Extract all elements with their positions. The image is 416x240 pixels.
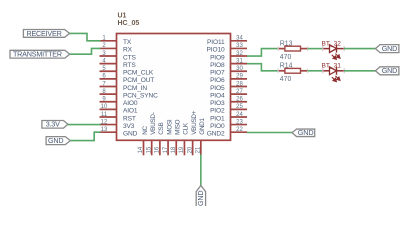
svg-text:PIO0: PIO0 [210,123,225,130]
svg-text:GND: GND [123,131,138,138]
wire RECEIVER to pin 1 [70,33,101,40]
supply label 3.3V [42,120,68,129]
svg-text:PIO7: PIO7 [210,70,225,77]
svg-text:21: 21 [196,146,202,153]
svg-text:GND: GND [196,191,205,206]
pin 33 (PIO10) of U1 [207,43,247,54]
svg-text:BT_32: BT_32 [322,40,342,47]
pin 24 (PIO1) of U1 [210,112,247,123]
wire R13 to LED BT_32 [308,48,323,50]
wire pin 31 to R14 [247,64,279,71]
wire 3.3V to pin 12 [68,124,101,126]
wire GND to pin 13 [70,132,100,140]
pin 22 (GND2) of U1 [207,127,247,138]
pin 14 (NC) of U1 [138,125,149,155]
pin 18 (MISO) of U1 [171,119,182,155]
svg-text:13: 13 [101,127,108,133]
svg-text:20: 20 [187,146,193,153]
svg-text:GND: GND [382,44,397,53]
svg-text:CLK: CLK [183,122,190,135]
pin 23 (PIO0) of U1 [210,119,247,129]
svg-text:HC_05: HC_05 [118,20,140,27]
svg-text:3.3V: 3.3V [46,120,60,129]
pin 31 (PIO8) of U1 [210,58,247,68]
pin 8 (PCN_SYNC) of U1 [100,89,159,100]
pin 29 (PIO6) of U1 [210,74,247,85]
svg-text:GND2: GND2 [207,131,225,138]
svg-text:NC: NC [142,125,149,134]
svg-text:17: 17 [163,146,169,153]
svg-text:24: 24 [236,112,243,118]
svg-text:VBUSD-: VBUSD- [150,112,157,135]
svg-text:MOSI: MOSI [166,119,173,135]
svg-text:12: 12 [101,119,108,125]
svg-text:PIO1: PIO1 [210,115,225,122]
svg-text:CTS: CTS [123,54,136,61]
pin 1 (TX) of U1 [100,36,132,47]
svg-text:19: 19 [179,146,185,153]
pin 11 (RST) of U1 [100,112,136,123]
svg-text:33: 33 [236,43,243,49]
svg-text:470: 470 [280,76,292,83]
svg-text:14: 14 [138,146,144,153]
ground label GND (right row 1) [375,44,399,53]
LED BT_31 [322,63,345,82]
pin 7 (PCM_IN) of U1 [100,81,148,92]
pin 25 (PIO2) of U1 [210,104,247,115]
pin 27 (PIO4) of U1 [210,89,247,100]
IC U1 HC_05 body [117,34,231,141]
ground label GND (right row 2) [375,66,399,75]
pin 17 (MOSI) of U1 [163,119,174,155]
svg-text:PIO6: PIO6 [210,77,225,84]
svg-text:18: 18 [171,146,177,153]
pin 30 (PIO7) of U1 [210,66,247,77]
svg-text:VBUSD+: VBUSD+ [191,110,198,135]
svg-text:RX: RX [123,47,133,54]
svg-text:PIO9: PIO9 [210,54,225,61]
pin 5 (PCM_CLK) of U1 [100,66,154,77]
svg-text:PCM_OUT: PCM_OUT [123,77,154,84]
svg-text:RTS: RTS [123,62,136,69]
svg-text:GND: GND [298,128,314,137]
svg-text:PCM_IN: PCM_IN [123,85,147,92]
svg-text:R13: R13 [280,40,293,47]
svg-text:PCN_SYNC: PCN_SYNC [123,92,158,99]
wire pin 22 to GND [247,132,293,134]
pin 21 (GND1) of U1 [196,117,207,155]
pin 9 (AIO0) of U1 [100,97,138,108]
resistor R14 [278,63,308,74]
wire pin 21 to GND (bottom) [200,154,202,185]
net label RECEIVER [23,29,69,38]
svg-text:U1: U1 [118,12,127,19]
svg-text:23: 23 [236,119,243,125]
svg-text:GND: GND [48,136,63,145]
svg-text:PIO11: PIO11 [207,39,225,46]
pin 6 (PCM_OUT) of U1 [100,74,155,85]
wire pin 32 to R13 [247,49,279,56]
svg-text:GND: GND [382,66,397,75]
pin 13 (GND) of U1 [100,127,138,138]
svg-text:32: 32 [236,51,243,57]
svg-text:30: 30 [236,66,243,72]
svg-text:15: 15 [146,146,152,153]
pin 34 (PIO11) of U1 [207,36,247,47]
pin 3 (CTS) of U1 [100,51,137,62]
wire BT_31 to GND [344,70,377,72]
svg-text:25: 25 [236,104,243,110]
svg-text:34: 34 [236,36,243,42]
svg-text:11: 11 [101,112,108,118]
ground label GND (pin 22) [292,128,315,137]
svg-text:PIO5: PIO5 [210,85,225,92]
LED BT_32 [322,40,345,59]
wire TRANSMITTER to pin 2 [70,48,101,54]
svg-text:27: 27 [236,89,243,95]
pin 12 (3V3) of U1 [100,119,135,129]
svg-text:PIO2: PIO2 [210,108,225,115]
svg-text:PIO10: PIO10 [207,47,225,54]
svg-text:RECEIVER: RECEIVER [26,29,61,38]
svg-text:10: 10 [101,104,108,110]
net label TRANSMITTER [10,50,70,59]
svg-text:AIO0: AIO0 [123,100,138,107]
svg-text:22: 22 [236,127,243,133]
pin 20 (VBUSD+) of U1 [187,110,198,155]
svg-text:470: 470 [280,54,292,61]
svg-text:R14: R14 [280,63,293,70]
pin 2 (RX) of U1 [100,43,133,54]
svg-text:16: 16 [155,146,161,153]
svg-text:29: 29 [236,74,243,80]
pin 15 (VBUSD-) of U1 [146,112,157,155]
svg-text:PIO4: PIO4 [210,92,225,99]
svg-text:28: 28 [236,81,243,87]
svg-text:BT_31: BT_31 [322,63,342,70]
svg-text:RST: RST [123,115,136,122]
ground label GND (left) [46,136,70,145]
svg-text:PCM_CLK: PCM_CLK [123,70,154,77]
svg-text:31: 31 [236,58,243,64]
pin 10 (AIO1) of U1 [100,104,138,115]
pin 4 (RTS) of U1 [100,58,137,68]
svg-text:TRANSMITTER: TRANSMITTER [13,50,62,59]
pin 26 (PIO3) of U1 [210,97,247,108]
svg-text:26: 26 [236,97,243,103]
svg-text:CSB: CSB [158,123,165,135]
ground label GND (bottom, rotated) [196,186,205,209]
pin 16 (CSB) of U1 [155,123,166,156]
svg-text:GND1: GND1 [199,117,206,134]
resistor R13 [278,40,308,51]
svg-text:3V3: 3V3 [123,123,135,130]
pin 19 (CLK) of U1 [179,122,190,155]
svg-text:MISO: MISO [175,119,182,134]
pin 32 (PIO9) of U1 [210,51,247,62]
svg-text:PIO8: PIO8 [210,62,225,69]
svg-text:PIO3: PIO3 [210,100,225,107]
svg-text:TX: TX [123,39,132,46]
wire R14 to LED BT_31 [308,70,323,72]
pin 28 (PIO5) of U1 [210,81,247,92]
svg-text:AIO1: AIO1 [123,108,138,115]
wire BT_32 to GND [344,48,377,50]
